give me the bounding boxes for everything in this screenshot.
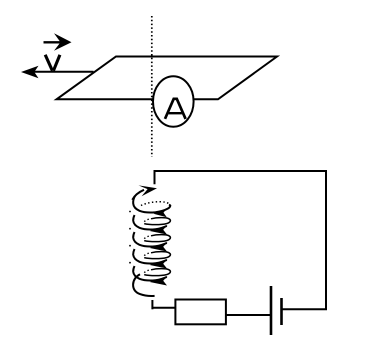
coil L turn 2 (back ellipse, dotted part) xyxy=(144,219,149,223)
coil L turn 2 (current arrowhead) xyxy=(150,225,168,235)
coil L turn 4 (front arc) xyxy=(133,249,167,263)
battery positive plate (long) xyxy=(270,286,273,335)
battery negative plate (short) xyxy=(280,298,283,325)
coil L turn 5 (front arc) xyxy=(133,266,167,280)
coil L turn 5 (back ellipse, dotted part) xyxy=(144,270,149,274)
coil L hidden-side dot (between turns 1-2) xyxy=(129,211,131,213)
coil L turn 4 (back ellipse, dotted part) xyxy=(144,253,149,257)
coil L turn 1 (front arc) xyxy=(133,196,170,212)
coil L current arrow (top, toward wire) xyxy=(132,185,157,199)
coil L turn 3 (back ellipse, dotted part) xyxy=(144,236,149,240)
coil L turn 3 (back ellipse, solid part) xyxy=(144,235,170,242)
coil L hidden-side dot (below turn 3) xyxy=(129,245,131,247)
coil L turn 2 (back ellipse, solid part) xyxy=(144,218,170,225)
coil L turn 3 (current arrowhead) xyxy=(150,242,168,252)
velocity arrow (long, pointing left) xyxy=(21,66,94,78)
coil L turn 5 (back ellipse, solid part) xyxy=(144,269,170,276)
coil L turn 3 (front arc) xyxy=(133,232,167,246)
wire (battery to resistor) xyxy=(226,314,270,316)
wire (resistor to coil) xyxy=(152,307,175,309)
coil L turn 1 (dotted back arc) xyxy=(141,202,171,207)
resistor R xyxy=(175,300,226,325)
coil L turn 5 (current arrowhead) xyxy=(150,276,168,286)
conducting loop (parallelogram plane) xyxy=(57,57,277,100)
label v xyxy=(45,55,60,71)
ammeter A xyxy=(153,76,194,126)
coil L turn 4 (current arrowhead) xyxy=(150,259,168,269)
coil L turn 1 (current arrowhead) xyxy=(154,209,168,218)
wire (top + right + bottom-right of circuit loop) xyxy=(155,171,327,309)
coil L hidden-side dot (below turn 2) xyxy=(129,228,131,230)
velocity arrow (small, pointing right) xyxy=(44,33,72,51)
coil L bottom tail arc xyxy=(133,274,155,296)
coil L turn 2 (front arc) xyxy=(133,215,167,229)
rotation axis (dotted line) xyxy=(151,16,153,157)
coil L turn 4 (back ellipse, solid part) xyxy=(144,252,170,259)
coil bottom terminal stub xyxy=(151,300,153,309)
coil L hidden-side dot (below turn 4) xyxy=(129,262,131,264)
